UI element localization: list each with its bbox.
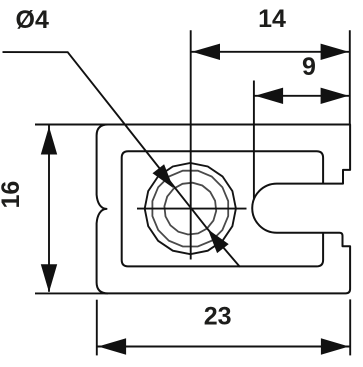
svg-text:9: 9 — [302, 53, 316, 81]
dim 16 line — [48, 125, 50, 291]
leader upper arrow — [153, 164, 174, 188]
dim 9 line — [254, 95, 350, 97]
pocket upper-right edge — [122, 151, 323, 266]
vertical centerline — [190, 30, 192, 259]
hole middle circle (faceted, grey) — [152, 171, 228, 247]
svg-text:14: 14 — [258, 5, 286, 33]
horizontal centerline — [137, 208, 247, 210]
hole outer circle (faceted) — [145, 163, 236, 254]
dim 9 left arrow — [255, 88, 283, 104]
dim 16 bottom extension line — [35, 292, 108, 294]
dim 23 left extension line — [96, 300, 98, 356]
leader line Ø4 — [3, 52, 240, 267]
svg-text:23: 23 — [204, 303, 232, 331]
dim 16 bottom arrow — [41, 264, 57, 292]
dim 9 right arrow — [321, 88, 349, 104]
dim 14 line — [191, 51, 350, 53]
dim 23 left arrow — [98, 338, 126, 354]
dim 14 left arrow — [192, 44, 220, 60]
dim 14 right extension line — [349, 30, 351, 124]
dim 9 left extension line — [253, 81, 255, 200]
dim 23 line — [97, 346, 350, 348]
leader lower arrow — [208, 229, 229, 253]
dim 23 right arrow — [321, 338, 349, 354]
dim 16 top extension line — [35, 124, 108, 126]
part outline — [97, 125, 351, 294]
hole inner circle (grey) — [164, 183, 216, 235]
svg-text:16: 16 — [0, 181, 25, 209]
svg-text:Ø4: Ø4 — [16, 6, 49, 34]
dim 23 right extension line — [349, 299, 351, 355]
dim 16 top arrow — [41, 127, 57, 155]
dim 14 right arrow — [321, 44, 349, 60]
